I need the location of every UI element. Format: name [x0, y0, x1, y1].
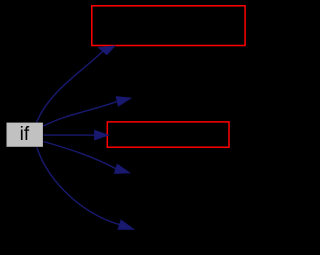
edge 5 (if -> bottom node) [37, 148, 134, 230]
edge 1 (if -> top node) [37, 46, 115, 123]
node: if (current function, grey) [7, 123, 43, 147]
label: if [0, 125, 49, 144]
edge 2 (if -> node 2) [44, 97, 131, 126]
edge 4 (if -> node 4) [44, 142, 130, 174]
edge 3 (if -> middle red node) [44, 130, 109, 139]
node: top truncated node (red border) [92, 6, 245, 46]
node: middle truncated node (red border) [107, 122, 229, 147]
